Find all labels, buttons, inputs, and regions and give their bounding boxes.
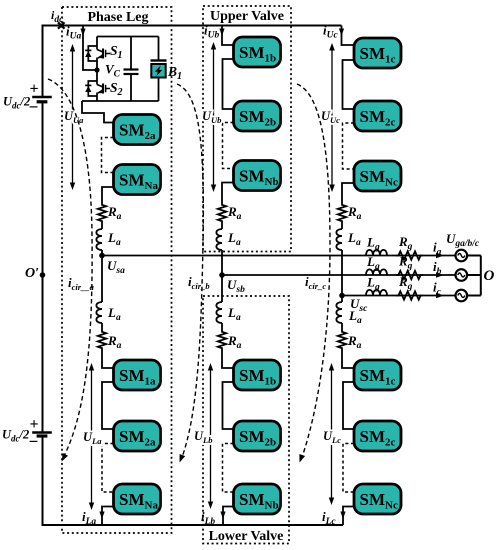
SM1a bridge: top rail (97, 36, 159, 38)
DC source Udc/2 bottom (2, 416, 52, 451)
SM1a bridge: bottom rail (82, 100, 159, 102)
node Usa (99, 253, 125, 277)
submodule SM1c (lower) (354, 360, 401, 390)
measure arrow ULa (91, 367, 93, 506)
wire: top DC bus (43, 26, 342, 98)
measure arrow UUc (331, 47, 333, 188)
submodule SM2b (lower) (234, 421, 281, 451)
submodule SMNa (lower) (114, 484, 161, 514)
wire: SMNc to bottom bus with iLc arrow (340, 507, 354, 526)
Upper Valve dashed frame (203, 6, 291, 252)
circulating current icir_b dashed curve (177, 84, 203, 463)
AC source phase b (456, 269, 468, 281)
submodule SM2a (upper) (114, 115, 161, 145)
submodule SM1b (lower) (234, 360, 281, 390)
inductor La (phase b lower) (216, 302, 222, 323)
wire: SMNb to Ra (222, 183, 234, 204)
svg-text:Lower Valve: Lower Valve (209, 529, 284, 544)
wire: Ra to SM1a lower (102, 350, 114, 368)
wire: bridge output to SM2a (82, 101, 114, 123)
current arrow ib (436, 272, 444, 278)
inductor La (phase c upper) (341, 223, 343, 229)
wire: SM1c to SM2c lower (343, 382, 354, 429)
node O' DC midpoint (25, 266, 45, 281)
inductor La (phase a lower) (96, 302, 102, 323)
dashed wire: SM2c to SMNc lower (343, 444, 354, 493)
measure arrow UUb (213, 46, 215, 188)
submodule SMNb (upper) (234, 161, 281, 191)
wire: SM1a to SM2a lower (102, 382, 114, 429)
wire to node Usc (341, 250, 343, 296)
measure arrow UUa (72, 48, 74, 186)
AC source phase a (456, 250, 468, 262)
wire: SM1b to SM2b (223, 59, 234, 109)
submodule SMNc (upper) (354, 161, 401, 191)
wire: AC output line phase c (342, 295, 456, 297)
wire: Ra to SM1b lower (222, 350, 234, 368)
wire: phase b upper input with iUb arrow (219, 26, 233, 46)
wire: AC output line phase a (102, 255, 456, 257)
resistor Rg (phase c) (396, 291, 423, 299)
dashed wire: SM2b to SMNb lower (223, 444, 234, 493)
measure arrow ULc (331, 367, 333, 501)
wire: Usb down to La lower (221, 275, 223, 302)
current arrow ic (436, 293, 444, 298)
Phase Leg dashed frame (62, 7, 172, 533)
resistor Ra (phase a lower) (101, 323, 103, 330)
wire: SM1c to SM2c (343, 60, 355, 109)
node Usc (339, 293, 368, 315)
wire: SMNb to bottom bus with iLb arrow (220, 507, 233, 526)
submodule SMNb (lower) (234, 484, 281, 514)
wire to node Usa (101, 250, 103, 256)
wire: left DC rail (42, 102, 44, 433)
circulating current icir_a dashed curve (48, 79, 92, 462)
resistor Rg (phase b) (396, 271, 423, 279)
DC source Udc/2 top (3, 81, 52, 117)
battery B1 (151, 37, 183, 102)
inductor Lg (phase c) (366, 290, 387, 296)
svg-text:Upper Valve: Upper Valve (210, 9, 284, 24)
dashed wire: SM2b to SMNb (223, 123, 234, 169)
dashed wire: SM2c to SMNc (343, 123, 355, 169)
inductor La (phase c lower) (341, 296, 343, 303)
circulating current icir_c dashed curve (297, 84, 330, 463)
wire: SM1b to SM2b lower (223, 382, 234, 429)
wire: Ra to SM1c lower (342, 350, 354, 368)
capacitor VC (105, 37, 139, 102)
wire: grid neutral rail O (467, 256, 494, 296)
wire: SMNa to bottom bus with iLa arrow (99, 507, 113, 526)
resistor Ra (phase b lower) (221, 323, 223, 330)
submodule SM2c (upper) (354, 101, 401, 131)
transistor S2 with diode (85, 80, 122, 98)
resistor Ra (phase c upper) (338, 203, 346, 223)
svg-text:O: O (484, 268, 495, 284)
resistor Ra (phase b upper) (218, 203, 226, 223)
wire: bottom DC bus (43, 436, 344, 525)
resistor Ra (phase c lower) (341, 323, 343, 330)
svg-text:+: + (29, 81, 38, 98)
measure arrow ULb (210, 367, 212, 505)
wire: SMNa to Ra (102, 187, 114, 203)
transistor S1 with diode (96, 37, 98, 47)
current idc junction marker (51, 8, 65, 29)
dashed wire: SM2a to SMNa lower (102, 444, 114, 493)
submodule SM1b (upper) (234, 37, 281, 67)
wire: phase c upper input with iUc arrow (339, 26, 354, 46)
resistor Rg (phase a) (396, 251, 423, 259)
submodule SM1a (lower) (114, 360, 161, 390)
wire: Usa down to La lower (101, 256, 103, 303)
wire: phase a upper input with iUa arrow (80, 26, 95, 71)
inductor Lg (phase b) (366, 269, 387, 275)
wire: AC output line phase b (222, 274, 456, 276)
inductor Lg (phase a) (366, 250, 387, 256)
inductor La (phase b upper) (221, 223, 223, 229)
wire: SMNc to Ra (342, 183, 354, 203)
current arrow ia (436, 253, 444, 258)
AC source phase c (456, 290, 468, 302)
svg-text:+: + (29, 416, 38, 433)
wire to node Usb (221, 250, 223, 275)
submodule SMNa (upper) (114, 165, 161, 195)
resistor Ra (phase a upper) (98, 203, 106, 223)
submodule SM2b (upper) (234, 101, 281, 131)
submodule SM2c (lower) (354, 421, 401, 451)
svg-text:O′: O′ (25, 266, 39, 281)
dashed wire: SM2a to SMNa (omitted modules) (102, 138, 114, 173)
submodule SMNc (lower) (354, 484, 401, 514)
svg-text:Phase Leg: Phase Leg (87, 10, 148, 25)
submodule SM1c (upper) (354, 38, 401, 68)
Lower Valve dashed frame (203, 296, 289, 544)
submodule SM2a (lower) (114, 421, 161, 451)
svg-text:−: − (29, 432, 39, 451)
inductor La (phase a upper) (101, 223, 103, 229)
node Usb (219, 272, 245, 295)
node: SM1a midpoint (96, 61, 98, 81)
